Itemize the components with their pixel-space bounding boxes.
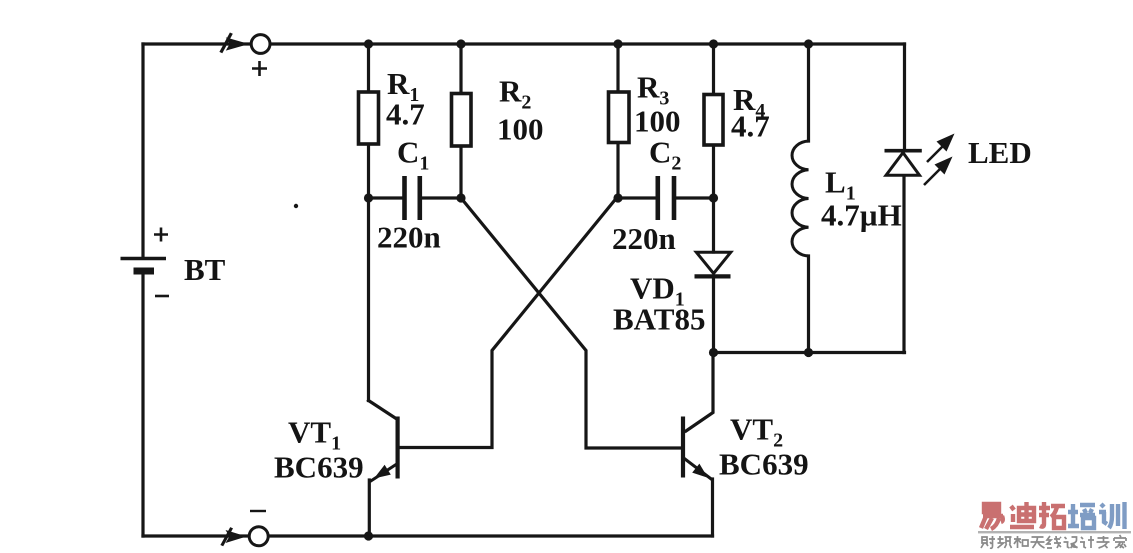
wire R2 to C1 node bbox=[459, 146, 462, 198]
logo char tuo bbox=[1039, 502, 1065, 528]
wire R1 to C1 node bbox=[367, 144, 370, 198]
svg-text:4.7µH: 4.7µH bbox=[821, 198, 902, 233]
node dot top L1 bbox=[804, 39, 813, 48]
wire LED branch top bbox=[903, 44, 906, 150]
tag char xian bbox=[1047, 536, 1061, 548]
wire mid horizontal rail bbox=[714, 351, 905, 354]
svg-text:BC639: BC639 bbox=[719, 447, 809, 482]
logo char xun bbox=[1099, 502, 1125, 529]
tag char tian bbox=[1031, 537, 1045, 548]
tag char he bbox=[1014, 536, 1028, 548]
wire R4 to C2 node bbox=[712, 145, 715, 198]
resistor R3 bbox=[609, 92, 630, 143]
wire node to VD1 anode bbox=[712, 198, 715, 252]
resistor R1 bbox=[359, 92, 379, 144]
svg-text:220n: 220n bbox=[612, 221, 676, 256]
LED arrow 2 bbox=[924, 157, 953, 186]
svg-text:220n: 220n bbox=[377, 220, 441, 255]
tag char jia bbox=[1114, 535, 1126, 548]
tag char she bbox=[981, 536, 995, 548]
svg-text:LED: LED bbox=[968, 135, 1032, 170]
battery plus sign bbox=[154, 228, 168, 242]
wire VT1 collector diagonal bbox=[369, 401, 397, 419]
node dot top R1 bbox=[364, 39, 373, 48]
node dot emitter VT1 bottom bbox=[364, 531, 373, 540]
minus sign at bottom terminal bbox=[250, 510, 266, 512]
wire R1 branch top bbox=[367, 44, 370, 92]
watermark tagline bbox=[981, 535, 1126, 548]
LED arrow 1 bbox=[927, 134, 955, 163]
svg-text:100: 100 bbox=[497, 112, 544, 147]
tag char ji bbox=[1080, 536, 1094, 548]
terminal top (open circle) bbox=[251, 35, 270, 54]
node dot C1 right bbox=[456, 193, 465, 202]
svg-text:4.7: 4.7 bbox=[731, 109, 770, 144]
svg-text:VT1: VT1 bbox=[288, 415, 341, 455]
node dot top R4 bbox=[709, 39, 718, 48]
logo char di bbox=[1010, 502, 1034, 527]
logo char pei bbox=[1068, 504, 1095, 528]
node dot top R3 bbox=[613, 39, 622, 48]
terminal bottom (open circle) bbox=[249, 527, 268, 546]
plus sign at top terminal bbox=[252, 61, 267, 76]
wire L1 top lead bbox=[807, 44, 810, 141]
node dot VD1 bottom bbox=[709, 348, 718, 357]
battery minus sign bbox=[155, 295, 169, 298]
wire top rail bbox=[143, 42, 905, 45]
svg-text:C1: C1 bbox=[397, 135, 429, 175]
wire bottom rail bbox=[143, 534, 713, 537]
resistor R4 bbox=[704, 95, 723, 146]
capacitor C2 bbox=[658, 176, 674, 220]
wire VT2 emitter vertical bbox=[711, 479, 714, 536]
battery BT bbox=[121, 259, 167, 272]
transistor VT2 bbox=[681, 417, 713, 481]
wire cross diagonal C2 to VT1 bbox=[400, 198, 617, 448]
wire left vertical (battery top) bbox=[141, 44, 144, 258]
node dot C2 left bbox=[613, 193, 622, 202]
svg-text:BT: BT bbox=[184, 252, 226, 287]
wire cross diagonal C1 to VT2 bbox=[461, 198, 681, 448]
wire R4 branch top bbox=[712, 44, 715, 95]
transistor VT1 bbox=[370, 417, 400, 482]
tag char zhuan bbox=[1097, 536, 1110, 548]
arrow on bottom wire bbox=[220, 527, 246, 546]
svg-text:R2: R2 bbox=[499, 74, 531, 114]
stray dot bbox=[294, 204, 298, 208]
wire left vertical (battery bottom) bbox=[141, 272, 144, 536]
svg-text:BAT85: BAT85 bbox=[613, 302, 705, 337]
wire C1 left lead bbox=[369, 196, 403, 199]
wire LED branch bottom bbox=[902, 176, 905, 353]
node dot top R2 bbox=[456, 39, 465, 48]
diode VD1 bbox=[695, 252, 731, 276]
svg-text:BC639: BC639 bbox=[274, 450, 364, 485]
node dot C2 right bbox=[709, 193, 718, 202]
node dot L1 bottom bbox=[804, 348, 813, 357]
wire R3 branch top bbox=[616, 44, 619, 92]
LED D1 bbox=[885, 151, 922, 176]
wire C2 right lead bbox=[677, 196, 714, 199]
wire C1 right lead bbox=[422, 196, 461, 199]
tag char pin bbox=[998, 536, 1012, 548]
wire R3 to C2 node bbox=[616, 143, 619, 199]
wire L1 bottom lead bbox=[807, 256, 810, 353]
wire VT1 emitter vertical bbox=[368, 480, 371, 536]
watermark logo yidituo peixun bbox=[981, 502, 1125, 529]
tag char she2 bbox=[1064, 537, 1078, 548]
wire C2 left lead bbox=[618, 196, 656, 199]
svg-text:4.7: 4.7 bbox=[386, 97, 425, 132]
wire VT1 collector vertical bbox=[367, 198, 370, 401]
watermark underline bbox=[978, 531, 1131, 533]
svg-text:C2: C2 bbox=[649, 135, 681, 175]
svg-text:100: 100 bbox=[634, 104, 681, 139]
logo char yi bbox=[981, 504, 1003, 529]
node dot C1 left bbox=[364, 193, 373, 202]
inductor L1 bbox=[792, 141, 808, 256]
svg-text:VT2: VT2 bbox=[730, 412, 783, 452]
resistor R2 bbox=[452, 94, 472, 147]
arrow on top wire bbox=[219, 33, 249, 54]
wire R2 branch top bbox=[459, 44, 462, 94]
wire VD1 cathode down bbox=[712, 277, 715, 353]
capacitor C1 bbox=[405, 176, 420, 220]
wire VT2 collector bbox=[686, 353, 713, 431]
